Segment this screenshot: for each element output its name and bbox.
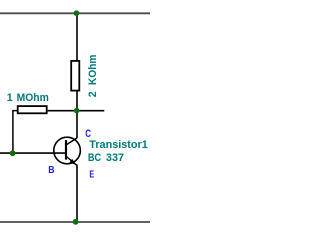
svg-text:MOhm: MOhm bbox=[17, 92, 49, 104]
wire: base wire from left edge to transistor bbox=[0, 152, 66, 154]
transistor Q1 circle bbox=[54, 137, 81, 164]
svg-text:1: 1 bbox=[7, 92, 13, 104]
svg-text:Transistor1: Transistor1 bbox=[89, 139, 148, 151]
wire: vertical from top rail to R2 top bbox=[76, 13, 78, 60]
transistor Q1 base bar bbox=[65, 140, 67, 160]
svg-text:E: E bbox=[89, 168, 94, 180]
wire: emitter down to bottom rail bbox=[76, 165, 78, 223]
svg-text:2: 2 bbox=[87, 91, 99, 97]
resistor R2 body (2 KOhm) bbox=[71, 61, 79, 91]
transistor Q1 emitter stroke bbox=[66, 156, 77, 165]
wire: bottom ground rail bbox=[0, 221, 150, 223]
resistor R1 body (1 MOhm) bbox=[18, 106, 47, 113]
node: junction dot bottom rail bbox=[73, 219, 79, 225]
transistor Q1 collector stroke bbox=[66, 138, 77, 145]
node: junction dot base wire left bbox=[10, 150, 16, 156]
wire: R2 bottom to collector node bbox=[76, 91, 78, 138]
svg-text:BC: BC bbox=[88, 152, 101, 164]
transistor Q1 emitter arrow bbox=[69, 159, 76, 165]
svg-text:337: 337 bbox=[106, 152, 124, 164]
node: junction dot top rail bbox=[74, 10, 80, 16]
wire: R1 left lead with bend down to base wire bbox=[13, 111, 17, 154]
node: junction dot collector / R1 bbox=[74, 108, 80, 114]
svg-text:KOhm: KOhm bbox=[87, 55, 99, 85]
wire: top supply rail bbox=[0, 12, 150, 14]
svg-text:B: B bbox=[48, 164, 54, 176]
wire: R1 right lead across collector wire bbox=[48, 110, 105, 112]
